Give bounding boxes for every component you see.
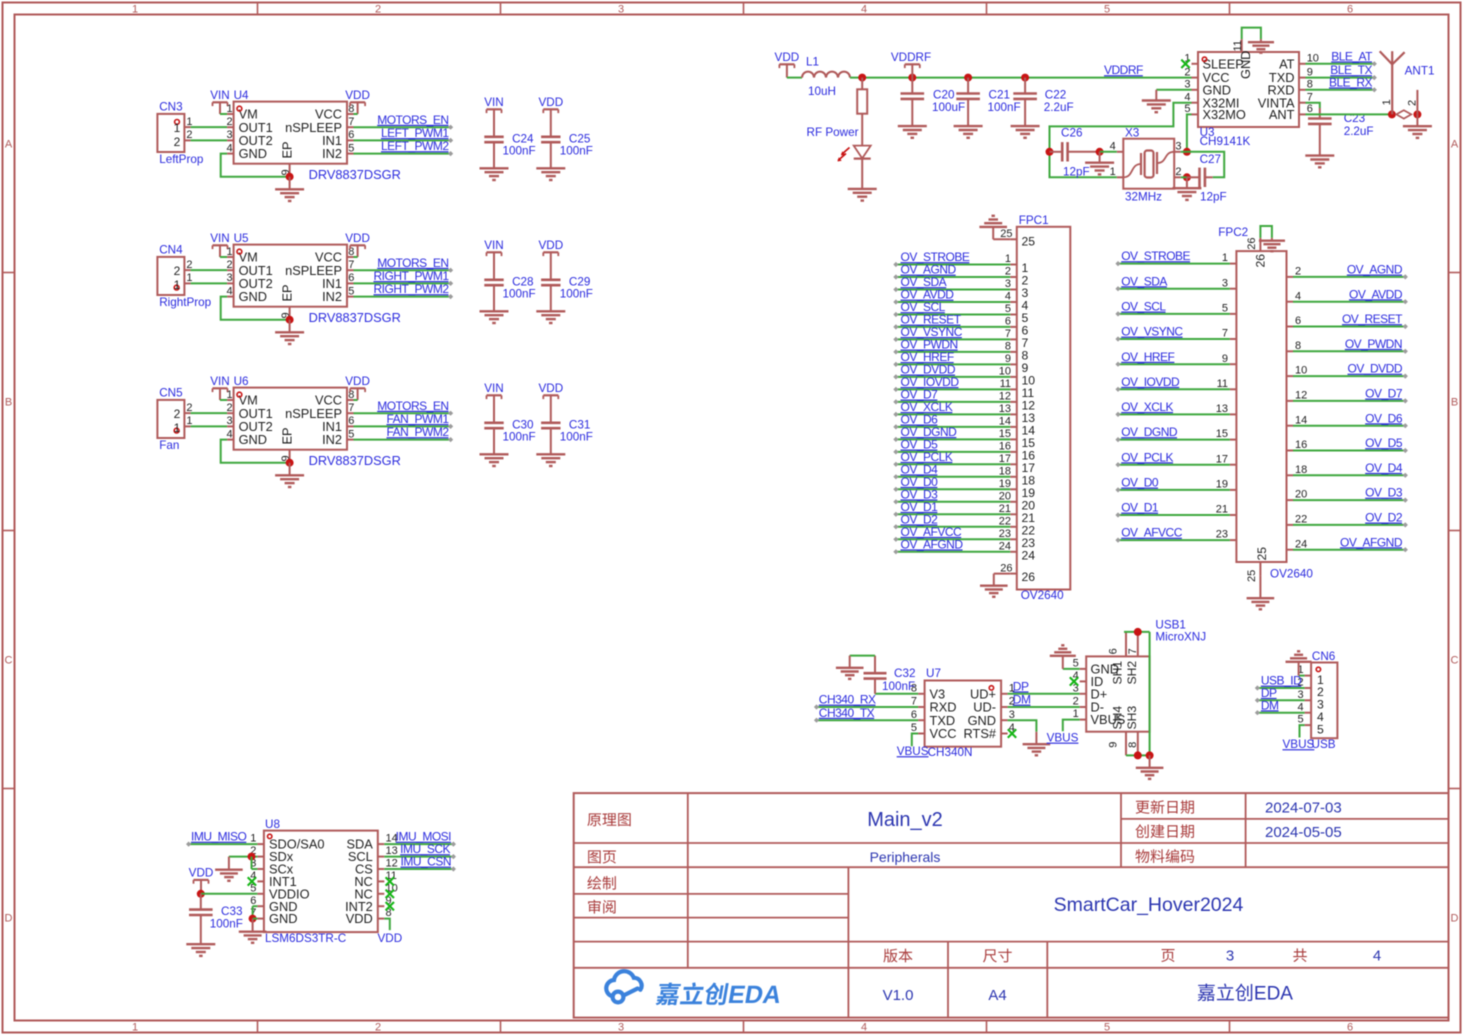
svg-text:5: 5: [1222, 303, 1228, 315]
svg-text:MicroXNJ: MicroXNJ: [1155, 631, 1206, 644]
svg-text:Peripherals: Peripherals: [870, 849, 941, 865]
svg-text:12: 12: [1295, 390, 1307, 402]
svg-text:100nF: 100nF: [503, 431, 536, 444]
svg-text:20: 20: [1295, 489, 1307, 501]
svg-text:B: B: [1451, 397, 1458, 409]
svg-text:9: 9: [1108, 742, 1120, 748]
svg-text:24: 24: [1295, 538, 1307, 550]
svg-text:D: D: [5, 913, 13, 925]
svg-text:5: 5: [1073, 658, 1079, 670]
svg-text:SH3: SH3: [1125, 706, 1139, 730]
svg-text:DRV8837DSGR: DRV8837DSGR: [309, 167, 401, 182]
svg-text:ANT1: ANT1: [1405, 65, 1435, 78]
svg-text:DRV8837DSGR: DRV8837DSGR: [309, 453, 401, 468]
svg-text:CN4: CN4: [159, 244, 183, 257]
svg-text:VDD: VDD: [377, 932, 402, 945]
svg-text:3: 3: [1005, 278, 1011, 290]
svg-text:7: 7: [911, 696, 917, 708]
svg-text:5: 5: [911, 722, 917, 734]
svg-text:U8: U8: [265, 818, 280, 831]
svg-text:SH1: SH1: [1111, 661, 1125, 685]
svg-text:8: 8: [1005, 341, 1011, 353]
svg-text:C27: C27: [1200, 153, 1221, 166]
svg-text:19: 19: [999, 478, 1011, 490]
svg-text:3: 3: [226, 415, 232, 427]
svg-text:8: 8: [1127, 742, 1139, 748]
svg-text:21: 21: [1216, 504, 1228, 516]
svg-text:2: 2: [226, 259, 232, 271]
svg-text:5: 5: [348, 285, 354, 297]
svg-text:A: A: [5, 139, 13, 151]
svg-text:EDA: EDA: [1254, 984, 1293, 1005]
svg-text:CH340N: CH340N: [928, 746, 973, 759]
svg-text:FPC1: FPC1: [1019, 214, 1049, 227]
svg-text:3: 3: [1226, 948, 1234, 965]
svg-text:2: 2: [1175, 166, 1181, 178]
svg-text:CN5: CN5: [159, 387, 183, 400]
svg-text:C33: C33: [221, 905, 242, 918]
svg-text:RF Power: RF Power: [807, 126, 859, 139]
svg-text:VDD: VDD: [345, 375, 370, 388]
svg-text:IN2: IN2: [322, 432, 342, 447]
svg-text:2: 2: [1073, 696, 1079, 708]
svg-text:AT: AT: [1279, 56, 1295, 71]
svg-text:3: 3: [1175, 140, 1181, 152]
svg-text:X32MO: X32MO: [1203, 107, 1246, 122]
svg-text:5: 5: [1104, 3, 1110, 15]
svg-text:DM: DM: [1261, 698, 1279, 712]
svg-text:1: 1: [1110, 166, 1116, 178]
svg-text:OV_PCLK: OV_PCLK: [1121, 450, 1173, 464]
svg-text:1: 1: [250, 833, 256, 845]
svg-text:C32: C32: [894, 667, 915, 680]
svg-text:5: 5: [1184, 103, 1190, 115]
svg-text:2: 2: [375, 1021, 381, 1033]
svg-text:OV_IOVDD: OV_IOVDD: [1121, 375, 1180, 389]
svg-text:13: 13: [999, 403, 1011, 415]
svg-text:4: 4: [1373, 948, 1381, 965]
svg-text:RIGHT_PWM2: RIGHT_PWM2: [373, 282, 449, 296]
svg-text:C: C: [1451, 655, 1459, 667]
svg-text:10: 10: [1295, 365, 1307, 377]
svg-text:EP: EP: [280, 284, 295, 301]
svg-text:1: 1: [1073, 708, 1079, 720]
svg-text:BLE_RX: BLE_RX: [1329, 75, 1373, 89]
svg-text:17: 17: [1216, 453, 1228, 465]
svg-text:OV_D3: OV_D3: [1365, 486, 1403, 500]
svg-text:VIN: VIN: [484, 96, 503, 109]
svg-text:15: 15: [1216, 428, 1228, 440]
svg-text:2.2uF: 2.2uF: [1344, 125, 1374, 138]
svg-text:LEFT_PWM2: LEFT_PWM2: [381, 139, 449, 153]
svg-text:6: 6: [911, 709, 917, 721]
svg-text:2: 2: [226, 402, 232, 414]
svg-text:A: A: [1451, 139, 1459, 151]
svg-text:VDD: VDD: [538, 239, 563, 252]
svg-text:SmartCar_Hover2024: SmartCar_Hover2024: [1054, 894, 1244, 916]
svg-text:10uH: 10uH: [808, 85, 836, 98]
svg-text:5: 5: [1104, 1021, 1110, 1033]
svg-text:4: 4: [1005, 291, 1011, 303]
svg-text:2: 2: [1295, 266, 1301, 278]
svg-text:VDD: VDD: [538, 96, 563, 109]
svg-text:IMU_CSN: IMU_CSN: [400, 855, 451, 869]
svg-text:3: 3: [1222, 277, 1228, 289]
svg-text:6: 6: [348, 415, 354, 427]
svg-text:14: 14: [1295, 414, 1307, 426]
svg-text:CN6: CN6: [1312, 650, 1335, 663]
svg-text:OV_PWDN: OV_PWDN: [1345, 337, 1402, 351]
svg-text:12pF: 12pF: [1063, 166, 1090, 179]
svg-text:1: 1: [174, 421, 181, 435]
svg-text:VDD: VDD: [538, 382, 563, 395]
svg-text:25: 25: [1255, 547, 1269, 561]
svg-text:23: 23: [999, 528, 1011, 540]
svg-text:2: 2: [226, 116, 232, 128]
svg-text:6: 6: [1307, 103, 1313, 115]
svg-text:9: 9: [1005, 353, 1011, 365]
svg-text:1: 1: [226, 389, 232, 401]
svg-text:OV_STROBE: OV_STROBE: [1121, 249, 1190, 263]
svg-text:1: 1: [1381, 99, 1393, 105]
svg-text:DRV8837DSGR: DRV8837DSGR: [309, 310, 401, 325]
svg-text:FAN_PWM2: FAN_PWM2: [386, 425, 449, 439]
svg-text:U7: U7: [926, 667, 941, 680]
svg-text:OV_SCL: OV_SCL: [1121, 300, 1166, 314]
svg-text:15: 15: [999, 428, 1011, 440]
svg-text:SH4: SH4: [1111, 706, 1125, 730]
svg-text:14: 14: [999, 416, 1011, 428]
svg-text:Fan: Fan: [159, 439, 179, 452]
svg-text:5: 5: [1317, 722, 1324, 736]
svg-text:VIN: VIN: [210, 375, 229, 388]
svg-text:DM: DM: [1013, 693, 1031, 707]
svg-text:4: 4: [226, 428, 232, 440]
svg-text:2: 2: [375, 3, 381, 15]
svg-text:4: 4: [226, 142, 232, 154]
svg-text:U6: U6: [234, 375, 249, 388]
svg-text:2024-05-05: 2024-05-05: [1265, 824, 1342, 841]
svg-text:OV_XCLK: OV_XCLK: [1121, 400, 1173, 414]
svg-text:5: 5: [1005, 303, 1011, 315]
svg-text:100nF: 100nF: [882, 680, 915, 693]
svg-text:3: 3: [1297, 689, 1303, 701]
svg-text:GND: GND: [239, 289, 267, 304]
svg-text:4: 4: [861, 3, 867, 15]
svg-text:VDDRF: VDDRF: [891, 51, 931, 64]
svg-text:OV_D1: OV_D1: [1121, 501, 1159, 515]
svg-text:IN2: IN2: [322, 146, 342, 161]
svg-text:6: 6: [1108, 648, 1120, 654]
svg-text:OV_D2: OV_D2: [1365, 511, 1403, 525]
svg-text:25: 25: [1022, 234, 1036, 248]
svg-text:1: 1: [226, 246, 232, 258]
svg-text:8: 8: [1307, 79, 1313, 91]
svg-text:16: 16: [1295, 439, 1307, 451]
svg-text:EP: EP: [280, 141, 295, 158]
svg-text:U4: U4: [234, 89, 249, 102]
svg-text:IN2: IN2: [322, 289, 342, 304]
svg-text:26: 26: [1000, 562, 1012, 574]
svg-text:LSM6DS3TR-C: LSM6DS3TR-C: [265, 932, 346, 945]
svg-text:4: 4: [1297, 701, 1303, 713]
svg-text:A4: A4: [988, 987, 1006, 1004]
svg-text:25: 25: [1000, 228, 1012, 240]
svg-text:IMU_MISO: IMU_MISO: [191, 830, 247, 844]
svg-text:CN3: CN3: [159, 101, 182, 114]
svg-text:VIN: VIN: [210, 89, 229, 102]
svg-text:C26: C26: [1061, 127, 1082, 140]
svg-text:VDDRF: VDDRF: [1104, 63, 1143, 77]
svg-text:1: 1: [226, 103, 232, 115]
svg-text:5: 5: [348, 142, 354, 154]
svg-text:7: 7: [348, 259, 354, 271]
svg-text:OV_VSYNC: OV_VSYNC: [1121, 325, 1183, 339]
svg-text:CH9141K: CH9141K: [1200, 135, 1251, 148]
svg-text:3: 3: [618, 3, 624, 15]
svg-text:OV_D6: OV_D6: [1365, 411, 1403, 425]
svg-text:D: D: [1451, 913, 1459, 925]
svg-text:6: 6: [250, 895, 256, 907]
svg-text:4: 4: [1110, 140, 1116, 152]
svg-text:DP: DP: [1013, 679, 1029, 693]
svg-text:7: 7: [1222, 328, 1228, 340]
svg-text:EP: EP: [280, 427, 295, 444]
svg-text:100nF: 100nF: [560, 431, 593, 444]
svg-text:CH340_TX: CH340_TX: [819, 706, 875, 720]
svg-text:OV_AGND: OV_AGND: [1347, 263, 1403, 277]
svg-text:100nF: 100nF: [988, 101, 1021, 114]
svg-text:V1.0: V1.0: [883, 987, 914, 1004]
svg-text:OV_D4: OV_D4: [1365, 461, 1403, 475]
svg-text:VBUS: VBUS: [1283, 738, 1315, 751]
svg-text:1: 1: [132, 3, 138, 15]
svg-text:Main_v2: Main_v2: [867, 809, 943, 831]
svg-text:100nF: 100nF: [503, 288, 536, 301]
svg-text:6: 6: [1005, 316, 1011, 328]
svg-text:3: 3: [618, 1021, 624, 1033]
svg-text:22: 22: [999, 515, 1011, 527]
svg-text:GND: GND: [239, 146, 267, 161]
svg-text:VDD: VDD: [346, 911, 373, 926]
svg-text:C21: C21: [989, 89, 1010, 102]
svg-text:VBUS: VBUS: [1047, 732, 1079, 745]
svg-text:GND: GND: [269, 911, 297, 926]
svg-text:VCC: VCC: [930, 726, 957, 741]
svg-text:11: 11: [1000, 378, 1011, 390]
svg-text:5: 5: [348, 428, 354, 440]
svg-text:10: 10: [999, 366, 1011, 378]
svg-text:100nF: 100nF: [503, 145, 536, 158]
svg-text:100uF: 100uF: [932, 101, 965, 114]
svg-text:6: 6: [1295, 315, 1301, 327]
svg-text:OV_D7: OV_D7: [1365, 387, 1403, 401]
svg-text:VBUS: VBUS: [897, 745, 929, 758]
svg-text:OV_DVDD: OV_DVDD: [1347, 362, 1402, 376]
svg-text:VIN: VIN: [484, 239, 503, 252]
svg-text:1: 1: [174, 278, 181, 292]
svg-text:OV_AFGND: OV_AFGND: [1340, 535, 1403, 549]
svg-text:X3: X3: [1125, 126, 1139, 139]
svg-text:7: 7: [1005, 328, 1011, 340]
svg-text:18: 18: [1295, 464, 1307, 476]
svg-text:C: C: [5, 655, 13, 667]
svg-text:3: 3: [1184, 79, 1190, 91]
svg-text:3: 3: [226, 129, 232, 141]
svg-text:MOTORS_EN: MOTORS_EN: [377, 113, 448, 127]
svg-text:OV_DGND: OV_DGND: [1121, 425, 1178, 439]
svg-text:100nF: 100nF: [560, 288, 593, 301]
svg-text:OV2640: OV2640: [1270, 568, 1313, 581]
svg-text:OV_AFGND: OV_AFGND: [901, 537, 964, 551]
svg-text:25: 25: [1246, 570, 1258, 582]
svg-text:17: 17: [999, 453, 1011, 465]
svg-text:1: 1: [174, 121, 181, 135]
svg-text:16: 16: [999, 441, 1011, 453]
svg-text:2: 2: [174, 264, 181, 278]
svg-text:13: 13: [386, 845, 398, 857]
svg-text:100nF: 100nF: [560, 145, 593, 158]
svg-text:7: 7: [348, 116, 354, 128]
svg-text:32MHz: 32MHz: [1125, 190, 1162, 203]
svg-text:7: 7: [1127, 648, 1139, 654]
svg-text:4: 4: [226, 285, 232, 297]
svg-text:23: 23: [1216, 529, 1228, 541]
svg-text:12: 12: [386, 858, 398, 870]
svg-text:11: 11: [1232, 40, 1244, 51]
svg-text:C22: C22: [1045, 89, 1066, 102]
svg-text:8: 8: [1295, 340, 1301, 352]
svg-text:8: 8: [348, 246, 354, 258]
svg-text:7: 7: [348, 402, 354, 414]
svg-text:6: 6: [348, 129, 354, 141]
svg-text:26: 26: [1253, 254, 1267, 268]
svg-text:100nF: 100nF: [210, 918, 243, 931]
svg-text:USB1: USB1: [1155, 618, 1186, 631]
svg-text:FPC2: FPC2: [1218, 226, 1248, 239]
svg-text:26: 26: [1246, 238, 1258, 250]
svg-text:RightProp: RightProp: [159, 296, 211, 309]
svg-text:1: 1: [1005, 253, 1011, 265]
svg-text:6: 6: [1347, 1021, 1353, 1033]
svg-text:1: 1: [132, 1021, 138, 1033]
svg-text:18: 18: [999, 465, 1011, 477]
svg-text:OV_D5: OV_D5: [1365, 436, 1403, 450]
svg-text:RTS#: RTS#: [964, 726, 997, 741]
svg-text:RIGHT_PWM1: RIGHT_PWM1: [373, 269, 449, 283]
svg-text:LEFT_PWM1: LEFT_PWM1: [381, 126, 449, 140]
svg-text:LeftProp: LeftProp: [159, 153, 204, 166]
svg-text:C20: C20: [933, 89, 955, 102]
svg-text:CH340_RX: CH340_RX: [819, 693, 876, 707]
svg-text:2: 2: [1407, 100, 1419, 106]
svg-text:USB: USB: [1312, 738, 1336, 751]
svg-text:OV_SDA: OV_SDA: [1121, 274, 1167, 288]
svg-text:21: 21: [999, 503, 1011, 515]
svg-text:5: 5: [1297, 714, 1303, 726]
svg-text:OV2640: OV2640: [1021, 589, 1064, 602]
svg-text:4: 4: [1295, 290, 1301, 302]
svg-text:SH2: SH2: [1125, 661, 1139, 685]
svg-text:GND: GND: [239, 432, 267, 447]
svg-text:24: 24: [999, 540, 1011, 552]
svg-text:OV_D0: OV_D0: [1121, 476, 1159, 490]
svg-text:2: 2: [1184, 66, 1190, 78]
svg-text:MOTORS_EN: MOTORS_EN: [377, 256, 448, 270]
svg-text:L1: L1: [806, 55, 819, 68]
svg-text:3: 3: [226, 272, 232, 284]
svg-text:OV_AVDD: OV_AVDD: [1349, 287, 1403, 301]
svg-text:FAN_PWM1: FAN_PWM1: [386, 412, 449, 426]
svg-text:GND: GND: [1238, 51, 1253, 79]
svg-text:22: 22: [1295, 514, 1307, 526]
svg-text:12: 12: [999, 391, 1011, 403]
svg-text:3: 3: [1009, 709, 1015, 721]
svg-text:2: 2: [174, 407, 181, 421]
svg-text:MOTORS_EN: MOTORS_EN: [377, 399, 448, 413]
svg-text:U5: U5: [234, 232, 249, 245]
svg-text:24: 24: [1022, 548, 1036, 562]
svg-text:VIN: VIN: [210, 232, 229, 245]
svg-text:B: B: [5, 397, 12, 409]
svg-text:VIN: VIN: [484, 382, 503, 395]
svg-text:8: 8: [348, 103, 354, 115]
svg-text:2: 2: [1005, 266, 1011, 278]
svg-text:ANT: ANT: [1269, 107, 1295, 122]
svg-text:2: 2: [174, 135, 181, 149]
svg-text:6: 6: [1347, 3, 1353, 15]
svg-text:BLE_AT: BLE_AT: [1331, 49, 1373, 63]
svg-text:11: 11: [1217, 378, 1228, 390]
svg-text:OV_HREF: OV_HREF: [1121, 350, 1174, 364]
svg-text:VDD: VDD: [775, 51, 800, 64]
svg-text:9: 9: [1222, 353, 1228, 365]
svg-text:13: 13: [1216, 403, 1228, 415]
svg-text:OV_RESET: OV_RESET: [1342, 312, 1403, 326]
svg-text:2024-07-03: 2024-07-03: [1265, 800, 1342, 817]
svg-text:VDD: VDD: [189, 866, 214, 879]
svg-text:12pF: 12pF: [1200, 190, 1227, 203]
svg-text:26: 26: [1022, 570, 1036, 584]
svg-text:20: 20: [999, 490, 1011, 502]
svg-text:OV_AFVCC: OV_AFVCC: [1121, 526, 1183, 540]
svg-text:8: 8: [348, 389, 354, 401]
svg-text:2.2uF: 2.2uF: [1044, 101, 1074, 114]
svg-text:6: 6: [348, 272, 354, 284]
svg-text:4: 4: [861, 1021, 867, 1033]
svg-text:VDD: VDD: [345, 232, 370, 245]
svg-text:19: 19: [1216, 479, 1228, 491]
svg-text:EDA: EDA: [726, 981, 784, 1009]
svg-text:VDD: VDD: [345, 89, 370, 102]
svg-text:1: 1: [1222, 252, 1228, 264]
